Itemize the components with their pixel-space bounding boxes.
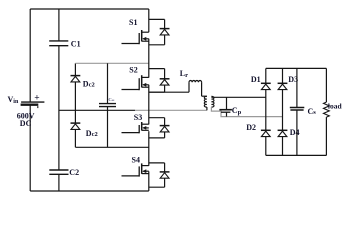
svg-text:Css: Css bbox=[108, 97, 115, 102]
svg-text:D4: D4 bbox=[290, 128, 300, 137]
svg-text:Dc2: Dc2 bbox=[86, 129, 98, 138]
svg-text:DC: DC bbox=[20, 119, 32, 128]
svg-text:C1: C1 bbox=[71, 39, 81, 48]
svg-text:S4: S4 bbox=[132, 156, 140, 165]
svg-text:Vin: Vin bbox=[8, 95, 19, 105]
svg-text:Lr: Lr bbox=[180, 69, 188, 79]
svg-text:Dc2: Dc2 bbox=[83, 80, 95, 89]
svg-text:Cs: Cs bbox=[308, 107, 317, 116]
svg-text:C2: C2 bbox=[69, 168, 79, 177]
svg-text:load: load bbox=[328, 102, 343, 111]
svg-text:S2: S2 bbox=[129, 65, 137, 74]
svg-text:D2: D2 bbox=[246, 123, 256, 132]
svg-text:Cp: Cp bbox=[232, 106, 242, 116]
svg-text:+: + bbox=[34, 93, 39, 103]
svg-text:S3: S3 bbox=[134, 113, 142, 122]
svg-text:S1: S1 bbox=[129, 18, 137, 27]
svg-text:D1: D1 bbox=[251, 75, 261, 84]
